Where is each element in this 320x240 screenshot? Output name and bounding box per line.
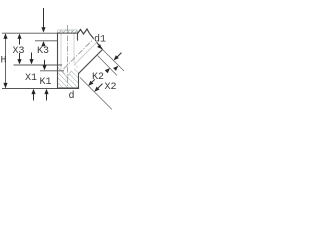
dimension line top reference <box>2 32 57 34</box>
branch end face line <box>90 34 103 50</box>
svg-text:d: d <box>69 90 75 102</box>
svg-text:X1: X1 <box>25 73 37 84</box>
branch inner bore line <box>74 43 96 65</box>
K2 outer arrow <box>105 68 110 73</box>
K3 arrow down (long leader from top) <box>43 8 45 29</box>
end face extension line <box>103 50 125 72</box>
svg-text:X3: X3 <box>13 46 25 57</box>
K1 top arrow <box>44 60 46 66</box>
socket top face hatched band <box>58 30 78 33</box>
pipe right wall lower <box>78 73 80 88</box>
X2 outer arrow <box>113 66 118 71</box>
pipe right wall upper stub <box>77 33 79 41</box>
H arrow up <box>3 33 7 38</box>
d1 arrow at branch end <box>97 44 102 49</box>
dimension line node reference <box>14 64 63 66</box>
K1 bottom arrow <box>46 94 48 101</box>
X3 arrow up <box>19 38 21 45</box>
node extension line <box>80 78 112 110</box>
hatch section of pipe body <box>58 64 78 88</box>
X2 outside arrow on face ext <box>114 55 119 60</box>
centerline vertical <box>67 25 69 86</box>
svg-text:X2: X2 <box>105 82 117 93</box>
X2 inner arrow <box>94 87 99 92</box>
K2 extension line <box>98 56 118 76</box>
H arrow down <box>3 83 7 88</box>
H dimension line <box>5 34 7 88</box>
X3 arrow down <box>19 53 21 60</box>
pipe top edge <box>57 32 78 34</box>
X1 bottom arrow <box>33 94 35 101</box>
svg-text:K2: K2 <box>92 72 104 83</box>
dimension line bottom reference <box>2 88 57 90</box>
pipe bottom edge <box>57 87 79 89</box>
pipe left wall <box>57 33 59 89</box>
dimension line K1 reference <box>40 70 64 72</box>
dimension line K3 reference <box>35 40 57 42</box>
K2 inner arrow <box>88 81 93 86</box>
svg-text:H: H <box>1 56 7 67</box>
svg-text:K1: K1 <box>40 77 52 88</box>
X1 top arrow <box>31 53 33 61</box>
branch lower-right edge <box>78 50 102 74</box>
socket inner wall left <box>60 34 62 71</box>
socket inner wall right <box>73 34 75 64</box>
svg-text:K3: K3 <box>37 46 49 57</box>
centerline branch 45deg <box>64 40 93 69</box>
d1 label <box>94 34 105 43</box>
branch break zigzag <box>78 29 90 34</box>
K3 arrow up <box>41 41 45 46</box>
svg-text:d1: d1 <box>94 34 106 46</box>
